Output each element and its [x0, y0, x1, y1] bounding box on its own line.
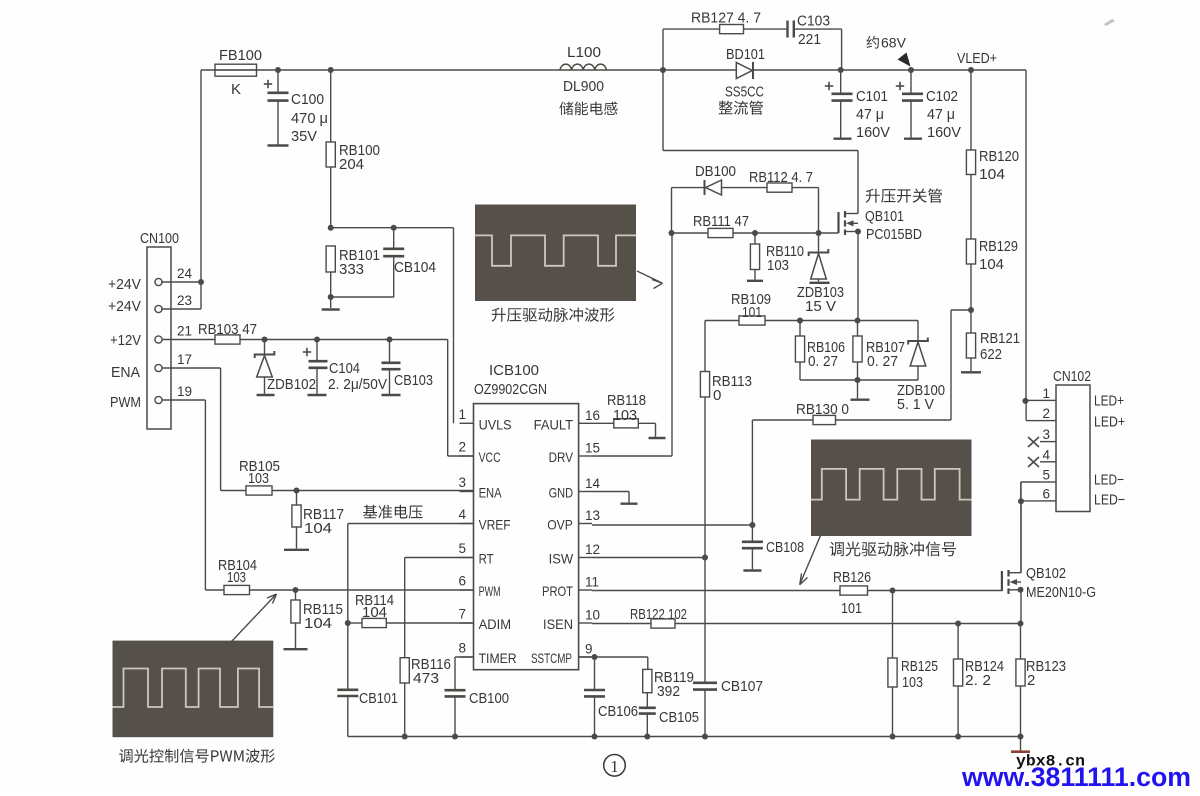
svg-text:QB101: QB101: [865, 208, 904, 225]
label ZDB103: [797, 284, 844, 315]
svg-text:CB103: CB103: [394, 372, 433, 389]
resistor RB125: [888, 658, 897, 687]
svg-text:DB100: DB100: [695, 163, 736, 180]
resistor RB103: [215, 335, 240, 344]
pin CN100-17: [155, 364, 162, 371]
svg-text:C104: C104: [329, 360, 360, 377]
label FAULT: [534, 416, 574, 432]
svg-text:PROT: PROT: [542, 583, 573, 599]
svg-text:www.3811111.com: www.3811111.com: [961, 762, 1191, 791]
label UVLS: [479, 416, 512, 432]
wire ADIM row: [348, 622, 474, 624]
node CN102 pin1: [1022, 398, 1028, 404]
wire GND net: [592, 492, 638, 504]
wire ENA feed: [162, 368, 246, 491]
label PC015BD: [866, 226, 922, 243]
pin 15 stub: [579, 455, 592, 457]
svg-text:4: 4: [1042, 447, 1050, 462]
svg-text:15: 15: [585, 441, 600, 456]
resistor RB129: [966, 239, 975, 264]
svg-text:6: 6: [1042, 486, 1050, 501]
label CN100 pin number 21: [177, 324, 192, 339]
svg-text:47 μ: 47 μ: [927, 106, 955, 123]
label RB127: [691, 10, 761, 27]
wire top rail VIN to VLED+: [201, 69, 1026, 71]
svg-text:5. 1 V: 5. 1 V: [897, 396, 934, 413]
resistor RB124: [954, 659, 963, 686]
pin number 14: [585, 476, 601, 491]
pin 12 stub: [579, 557, 592, 559]
diode DB100: [705, 180, 722, 195]
wire RB109 row: [705, 320, 918, 322]
label C102: [926, 88, 961, 141]
label CN102 pin 4: [1042, 447, 1050, 462]
node ISEN-RB124: [955, 621, 961, 627]
svg-text:CB105: CB105: [659, 709, 699, 726]
capacitor C104: [303, 340, 328, 396]
svg-text:1: 1: [1042, 386, 1050, 401]
wire left +24V drop: [161, 70, 201, 309]
label TIMER: [479, 650, 517, 666]
label CN102: [1053, 368, 1091, 385]
node ZDB102 top: [262, 337, 268, 343]
svg-text:23: 23: [177, 293, 192, 308]
label ICB100: [489, 362, 539, 379]
label RB129: [979, 238, 1018, 273]
svg-text:103: 103: [248, 470, 269, 487]
pin CN100-19: [155, 396, 162, 403]
label PWM: [110, 394, 141, 411]
label SSTCMP: [531, 650, 572, 666]
svg-text:CB100: CB100: [469, 690, 509, 707]
svg-text:104: 104: [979, 166, 1005, 183]
label CB103: [394, 372, 433, 389]
resistor RB120: [966, 150, 975, 175]
label QB102: [1026, 565, 1066, 582]
wire RB101-CB104 bottom: [331, 296, 394, 298]
node RB107 top: [855, 318, 861, 324]
label QB101: [865, 208, 904, 225]
pin number 4: [458, 507, 466, 522]
pin 9 stub: [579, 656, 592, 658]
node rail-CB100: [452, 734, 458, 740]
svg-text:35V: 35V: [291, 128, 317, 145]
pin number 8: [458, 641, 466, 656]
pin 3 stub: [460, 491, 474, 493]
node OVP-CB108: [749, 522, 755, 528]
zener ZDB102: [255, 340, 275, 396]
svg-text:ISW: ISW: [549, 551, 574, 567]
svg-text:+24V: +24V: [108, 298, 141, 315]
svg-text:3: 3: [458, 475, 466, 490]
arrow waveform2 pointer: [800, 536, 821, 585]
svg-text:RT: RT: [479, 551, 494, 567]
capacitor C100: [264, 70, 289, 146]
node RB117 top: [294, 488, 300, 494]
node C104 top: [314, 337, 320, 343]
wire sense bottom: [800, 379, 918, 381]
capacitor CB100: [445, 690, 466, 696]
wire PROT net: [592, 590, 1002, 592]
pin number 3: [458, 475, 466, 490]
svg-text:ISEN: ISEN: [543, 616, 573, 632]
node PROT-RB125: [890, 588, 896, 594]
label RB109: [731, 291, 771, 321]
svg-text:333: 333: [339, 261, 364, 278]
capacitor CB101: [337, 690, 358, 696]
node SSTCMP-CB106: [592, 654, 598, 660]
svg-text:DRV: DRV: [549, 449, 574, 465]
svg-text:204: 204: [339, 156, 364, 173]
label CB108: [766, 539, 804, 556]
svg-text:VCC: VCC: [479, 449, 501, 465]
wire VREF net: [348, 524, 474, 737]
svg-text:CN100: CN100: [140, 230, 179, 247]
label LED- a: [1094, 472, 1124, 489]
label CN100 pin number 24: [177, 266, 193, 281]
node top-C100: [275, 67, 281, 73]
svg-text:FAULT: FAULT: [534, 416, 574, 432]
text www.3811111.com: [961, 762, 1191, 792]
capacitor CB108: [742, 525, 763, 571]
svg-text:SSTCMP: SSTCMP: [531, 650, 572, 666]
label 约68V: [867, 35, 907, 51]
node CN102 pin6: [1018, 498, 1024, 504]
wire SW to drain: [663, 70, 858, 214]
label 调光驱动脉冲信号: [830, 542, 956, 557]
svg-text:473: 473: [413, 670, 439, 687]
mark X pin4: [1028, 457, 1039, 467]
label LED+ a: [1094, 393, 1124, 410]
label RB101: [339, 247, 380, 278]
resistor RB100: [326, 70, 335, 228]
wire RB127 branch: [663, 29, 842, 70]
svg-text:470 μ: 470 μ: [291, 110, 328, 127]
svg-text:15 V: 15 V: [805, 298, 836, 315]
resistor RB117: [284, 491, 309, 550]
label RB115: [303, 601, 343, 632]
node QB102 source: [1018, 587, 1024, 593]
svg-text:RB125: RB125: [901, 658, 938, 675]
pin CN102-2 stub: [1040, 420, 1056, 422]
resistor RB106: [795, 321, 804, 381]
svg-text:2: 2: [1027, 672, 1035, 689]
label 升压开关管: [866, 188, 943, 203]
wire SSTCMP net: [579, 657, 648, 669]
svg-text:104: 104: [304, 520, 332, 537]
label RB105: [239, 458, 280, 487]
wire bottom rail: [348, 736, 1021, 738]
svg-text:3: 3: [1042, 427, 1050, 442]
wire +12V rail: [162, 340, 474, 457]
label L100: [567, 44, 601, 61]
wire RT net: [405, 558, 474, 737]
svg-text:7: 7: [458, 607, 466, 622]
svg-text:LED+: LED+: [1094, 414, 1125, 431]
pin number 9: [585, 642, 593, 657]
zener ZDB100: [908, 321, 928, 381]
svg-text:CN102: CN102: [1053, 368, 1091, 385]
text ybx8.cn: [1016, 753, 1085, 771]
wire RB113 net: [704, 321, 706, 737]
svg-text:L100: L100: [567, 44, 601, 61]
resistor RB116: [400, 658, 409, 683]
svg-text:RB129: RB129: [979, 238, 1018, 255]
label CN100 pin number 19: [177, 384, 192, 399]
resistor RB107: [853, 321, 862, 381]
label RB112: [749, 169, 813, 186]
label CN100: [140, 230, 179, 247]
transistor QB102: [1002, 570, 1021, 594]
node VREF-RB114: [345, 620, 351, 626]
svg-text:68V: 68V: [881, 35, 907, 51]
pin 8 stub: [460, 656, 474, 658]
pin CN102-6 stub: [1040, 500, 1056, 502]
label RB125: [901, 658, 938, 691]
svg-text:RB126: RB126: [833, 569, 871, 586]
wire ISW net: [592, 557, 705, 559]
pin CN102-5 stub: [1040, 481, 1056, 483]
node VLED: [968, 67, 974, 73]
node rail-CB107: [702, 734, 708, 740]
wire QB102 source down: [1020, 590, 1022, 624]
svg-text:2. 2μ/50V: 2. 2μ/50V: [328, 376, 387, 393]
pin 13 stub: [579, 523, 592, 525]
svg-text:+12V: +12V: [110, 332, 141, 349]
pin 10 stub: [579, 622, 592, 624]
mark X pin3: [1028, 437, 1039, 447]
svg-text:RB121: RB121: [980, 330, 1020, 347]
node SW junction: [660, 67, 666, 73]
wire QB102 drain up: [1020, 482, 1022, 573]
label ZDB100: [897, 382, 945, 413]
wire ISEN net: [592, 623, 1021, 625]
label RB120: [979, 148, 1019, 183]
pin number 10: [585, 608, 600, 623]
label RB124: [965, 658, 1004, 689]
svg-text:SS5CC: SS5CC: [725, 84, 764, 101]
label VREF: [479, 517, 511, 533]
svg-text:VREF: VREF: [479, 517, 511, 533]
svg-text:160V: 160V: [927, 124, 961, 141]
wire RB123 net: [1020, 624, 1022, 737]
label CB106: [598, 703, 638, 720]
label CN102 pin 1: [1042, 386, 1050, 401]
resistor RB101: [326, 246, 335, 297]
pin 16 stub: [579, 422, 592, 424]
svg-text:104: 104: [304, 615, 332, 632]
svg-text:101: 101: [841, 600, 862, 617]
label RB126: [833, 569, 871, 617]
resistor RB110: [747, 233, 763, 281]
svg-text:LED+: LED+: [1094, 393, 1124, 410]
ground sense: [851, 380, 870, 400]
label CN102 pin 6: [1042, 486, 1050, 501]
label 储能电感: [559, 102, 617, 116]
image waveform 调光驱动脉冲信号: [811, 440, 972, 537]
label FB100: [219, 47, 262, 64]
wire TIMER net: [455, 657, 474, 737]
label DL900: [563, 78, 604, 95]
pin 1 stub: [460, 422, 474, 424]
wire gate RB111: [672, 232, 839, 234]
label CB107: [721, 678, 763, 695]
node CB103 top: [387, 337, 393, 343]
label ME20N10-G: [1026, 584, 1096, 601]
label RB107: [866, 339, 905, 370]
svg-text:RB112 4. 7: RB112 4. 7: [749, 169, 813, 186]
pin number 2: [458, 440, 466, 455]
svg-text:47 μ: 47 μ: [856, 106, 884, 123]
pin CN102-4 stub: [1040, 461, 1056, 463]
pin number 1: [458, 407, 466, 422]
pin CN100-21: [155, 336, 162, 343]
svg-text:11: 11: [585, 575, 599, 590]
svg-text:5: 5: [1042, 468, 1050, 483]
svg-text:CB106: CB106: [598, 703, 638, 720]
svg-text:PWM: PWM: [479, 583, 501, 599]
label RB117: [303, 506, 344, 537]
label 调光控制信号PWM波形: [119, 749, 275, 763]
resistor RB104: [224, 585, 250, 594]
svg-text:CB104: CB104: [394, 259, 436, 276]
mark circled 1: [604, 755, 626, 777]
label CB100: [469, 690, 509, 707]
node ISW-RB113: [702, 555, 708, 561]
svg-text:C103: C103: [797, 13, 830, 30]
pin 6 stub: [460, 589, 474, 591]
label C100: [291, 91, 324, 108]
pin number 5: [458, 541, 466, 556]
svg-text:221: 221: [798, 31, 821, 48]
pin number 6: [458, 574, 466, 589]
svg-text:TIMER: TIMER: [479, 650, 517, 666]
wire DRV net: [592, 233, 672, 456]
wire ENA row: [272, 490, 474, 492]
label RB104: [218, 557, 257, 586]
mark speck: [1104, 19, 1115, 26]
svg-text:CB108: CB108: [766, 539, 804, 556]
svg-text:CB107: CB107: [721, 678, 763, 695]
svg-text:ADIM: ADIM: [479, 616, 512, 632]
pin 7 stub: [460, 622, 474, 624]
node 68V: [908, 67, 914, 73]
label CN102 pin 3: [1042, 427, 1050, 442]
resistor RB127: [720, 25, 744, 34]
svg-text:101: 101: [742, 304, 762, 321]
svg-text:622: 622: [980, 346, 1002, 363]
node RB101 bottom: [328, 294, 334, 300]
wire CN102 pin1-2 tie: [1025, 400, 1040, 420]
label BD101: [726, 46, 765, 63]
svg-text:2: 2: [1042, 406, 1050, 421]
svg-text:C102: C102: [926, 88, 958, 105]
node BD101 cathode: [838, 67, 844, 73]
label VLED+: [957, 50, 997, 67]
wire OVP feedback: [752, 310, 971, 525]
resistor RB126: [840, 586, 868, 595]
svg-text:13: 13: [585, 508, 600, 523]
svg-text:PC015BD: PC015BD: [866, 226, 922, 243]
pin number 15: [585, 441, 600, 456]
label CN100 pin number 17: [177, 352, 192, 367]
label LED+ b: [1094, 414, 1125, 431]
node CN100 pin24 tie: [198, 279, 204, 285]
capacitor CB103: [382, 340, 401, 396]
capacitor CB107: [693, 683, 717, 690]
svg-text:+24V: +24V: [108, 276, 141, 293]
svg-text:16: 16: [585, 408, 600, 423]
node rail-RB124: [955, 734, 961, 740]
node top-RB100: [328, 67, 334, 73]
label CN102 pin 2: [1042, 406, 1050, 421]
node RB115 top: [293, 587, 299, 593]
node CB104 top: [391, 225, 397, 231]
pin number 16: [585, 408, 600, 423]
inductor L100: [560, 64, 606, 70]
svg-text:392: 392: [657, 683, 680, 700]
label OVP: [547, 517, 573, 533]
label DRV: [549, 449, 574, 465]
label ENA: [479, 485, 503, 501]
node rail-CB105: [644, 734, 650, 740]
wire RB100 to UVLS: [331, 228, 454, 424]
label VCC: [479, 449, 501, 465]
svg-text:OVP: OVP: [547, 517, 573, 533]
svg-text:C101: C101: [856, 88, 888, 105]
svg-text:RB127 4. 7: RB127 4. 7: [691, 10, 761, 27]
label PWM: [479, 583, 501, 599]
resistor RB118: [614, 419, 639, 428]
pin number 13: [585, 508, 600, 523]
svg-text:21: 21: [177, 324, 192, 339]
capacitor CB106: [584, 657, 605, 737]
connector CN100: [147, 247, 171, 429]
node ZDB103 top: [816, 230, 822, 236]
node fb: [968, 307, 974, 313]
svg-text:RB130 0: RB130 0: [796, 401, 849, 418]
svg-text:0: 0: [713, 387, 721, 404]
svg-text:ME20N10-G: ME20N10-G: [1026, 584, 1096, 601]
pin 14 stub: [579, 491, 592, 493]
pin number 11: [585, 575, 599, 590]
label RB111: [693, 213, 749, 230]
svg-text:160V: 160V: [856, 124, 890, 141]
svg-text:RB111 47: RB111 47: [693, 213, 749, 230]
wire RB124 net: [957, 624, 959, 737]
label CB105: [659, 709, 699, 726]
capacitor C103: [788, 21, 794, 38]
resistor RB119: [643, 669, 652, 692]
label RB130: [796, 401, 849, 418]
svg-text:5: 5: [458, 541, 466, 556]
svg-text:RB120: RB120: [979, 148, 1019, 165]
label CB101: [359, 690, 398, 707]
capacitor CB105: [639, 693, 656, 737]
svg-text:2: 2: [458, 440, 466, 455]
label RB122: [630, 606, 687, 623]
resistor RB105: [246, 486, 272, 495]
svg-text:PWM: PWM: [110, 394, 141, 411]
svg-text:VLED+: VLED+: [957, 50, 997, 67]
node rail-CB106: [592, 734, 598, 740]
svg-text:104: 104: [979, 256, 1004, 273]
svg-text:103: 103: [613, 407, 637, 424]
wire QB101 source down: [857, 232, 859, 321]
label +12V: [110, 332, 141, 349]
svg-text:BD101: BD101: [726, 46, 765, 63]
label C103: [797, 13, 830, 49]
